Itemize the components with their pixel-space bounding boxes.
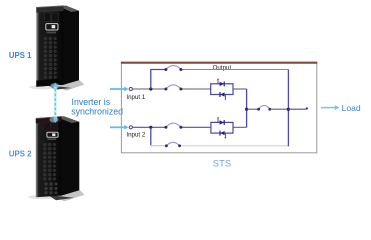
breaker CB2 input2 <box>164 123 182 129</box>
UPS tower 2 floor shadow <box>28 190 85 202</box>
node J2 input2 branch <box>149 126 152 129</box>
wire output tail <box>288 107 308 109</box>
node J4 bypass output <box>287 108 290 111</box>
UPS tower 2 display U2 <box>47 132 58 140</box>
input 2 terminal <box>129 126 132 129</box>
svg-text:Input 1: Input 1 <box>126 94 145 101</box>
svg-text:synchronized: synchronized <box>71 107 123 117</box>
wire breaker to bypass node <box>270 108 289 110</box>
wire output to breaker <box>247 108 259 110</box>
UPS tower 1 body <box>36 6 79 87</box>
STS enclosure box <box>121 63 317 153</box>
wire breaker1 to SCR1 <box>181 88 211 90</box>
wire SCR1 to join <box>233 88 247 90</box>
wire input2 to breaker <box>133 126 166 128</box>
svg-text:Input 2: Input 2 <box>126 132 145 139</box>
UPS tower 1 floor shadow <box>29 80 85 91</box>
UPS tower 1 base <box>36 79 63 87</box>
UPS tower 2 top modules <box>44 123 58 131</box>
input 2 source arrow <box>110 125 129 130</box>
svg-text:UPS 2: UPS 2 <box>9 149 32 158</box>
svg-text:Output: Output <box>213 64 232 71</box>
wire bypass2 dropper <box>150 127 152 145</box>
wire input1 to breaker <box>133 88 166 90</box>
breaker CB1 input1 <box>164 85 182 91</box>
UPS tower 1 vent grid <box>44 37 57 79</box>
breaker CB3 bypass top <box>164 66 182 71</box>
input 1 source arrow <box>110 87 129 92</box>
wire bypass top run <box>181 69 289 71</box>
UPS tower 2 lower vent block <box>44 182 57 194</box>
node J3 output join <box>245 108 248 111</box>
node J1 input1 branch <box>149 87 152 90</box>
svg-text:STS: STS <box>213 158 231 168</box>
label inverter synchronized <box>71 97 123 116</box>
wire breaker2 to SCR2 <box>181 126 211 128</box>
sync arrow between UPS 1 and UPS 2 <box>53 83 57 124</box>
breaker CB4 bypass bottom <box>165 142 181 147</box>
wire SCR2 join riser <box>246 109 248 127</box>
sync arrow glow top <box>50 83 59 89</box>
wire SCR2 to join <box>233 126 247 128</box>
load arrow <box>321 105 340 110</box>
wire bypass1 riser <box>151 70 166 90</box>
SCR module S2 <box>211 117 233 138</box>
UPS tower 2 vent grid <box>43 143 55 180</box>
svg-text:Load: Load <box>342 103 361 113</box>
SCR module S1 <box>211 79 233 100</box>
UPS tower 1 display U1 <box>46 24 58 34</box>
input 1 terminal <box>129 87 132 90</box>
svg-text:UPS 1: UPS 1 <box>9 51 32 60</box>
wire SCR1 join dropper <box>246 89 248 109</box>
wire bypass bottom run <box>181 145 289 147</box>
wire bypass vertical <box>287 70 289 147</box>
UPS tower 2 body <box>36 116 80 197</box>
sync arrow glow bottom <box>50 117 59 123</box>
UPS tower 1 top modules <box>44 13 58 21</box>
breaker CB5 output <box>257 105 271 110</box>
